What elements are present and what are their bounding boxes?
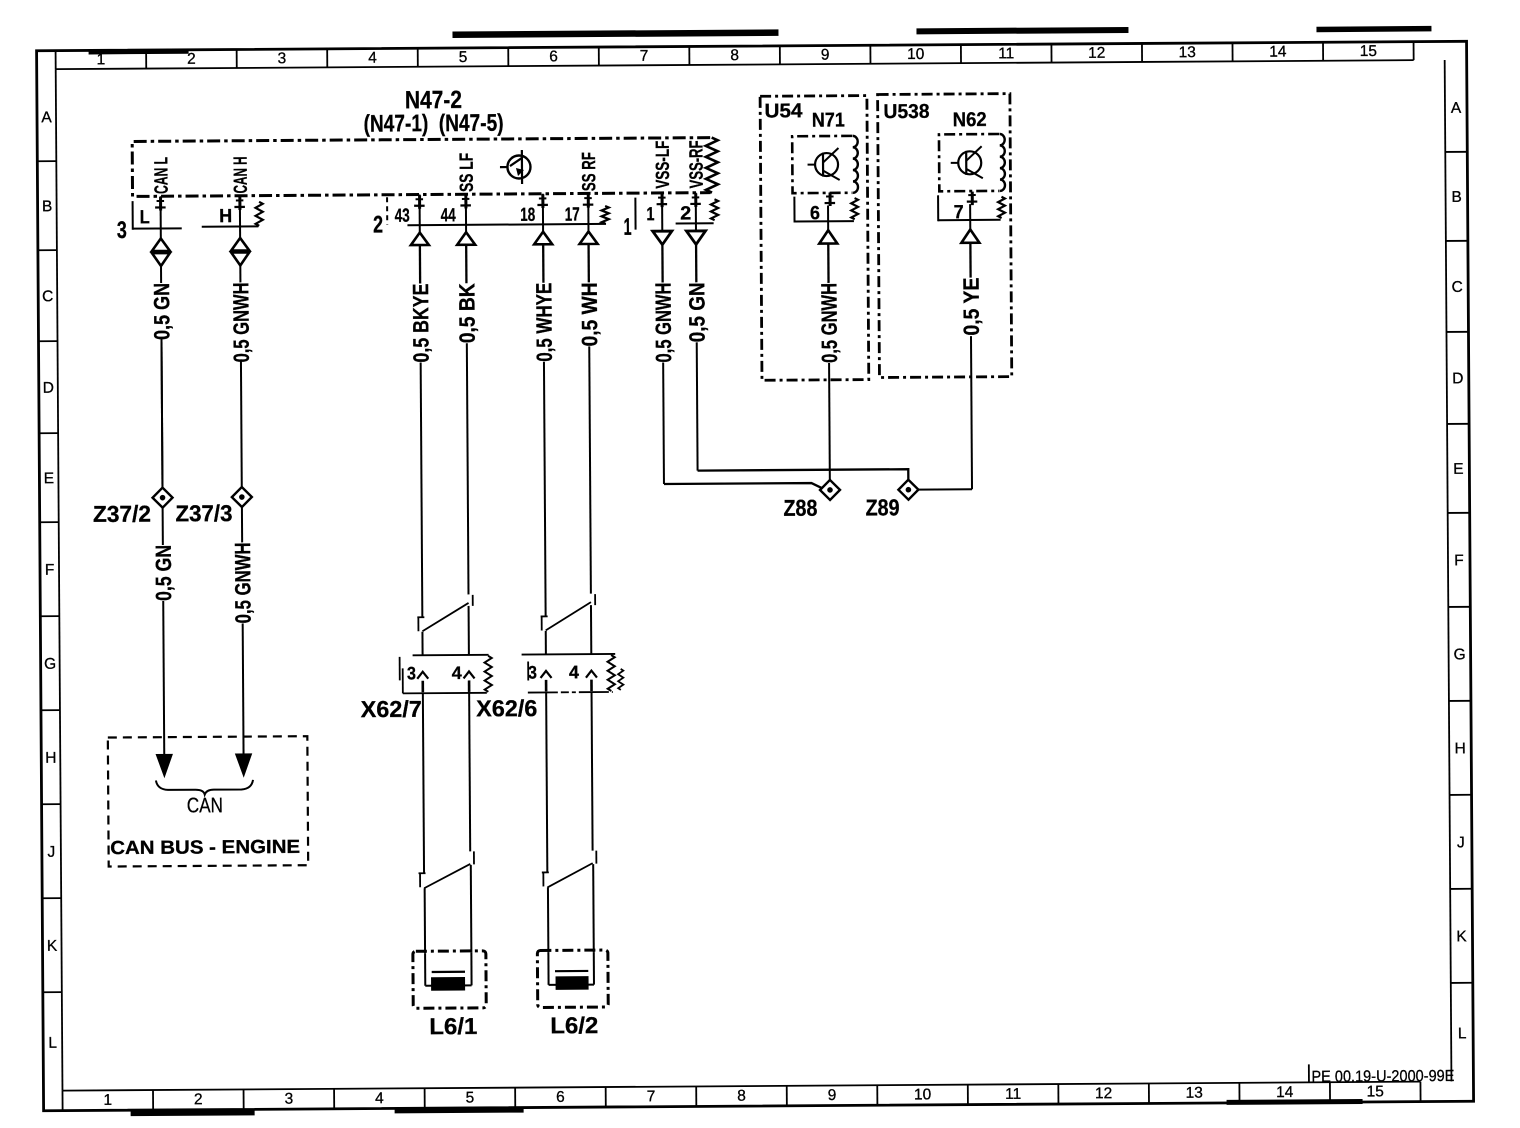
svg-text:2: 2 xyxy=(373,211,383,238)
svg-text:3: 3 xyxy=(407,663,416,683)
svg-text:PE 00.19-U-2000-99E: PE 00.19-U-2000-99E xyxy=(1311,1068,1454,1086)
svg-text:CAN BUS - ENGINE: CAN BUS - ENGINE xyxy=(110,837,300,859)
svg-text:CAN: CAN xyxy=(187,794,223,817)
svg-text:Z89: Z89 xyxy=(865,494,899,520)
svg-text:K: K xyxy=(47,938,58,955)
svg-text:N62: N62 xyxy=(953,109,987,131)
svg-text:A: A xyxy=(41,109,52,126)
svg-text:E: E xyxy=(1453,461,1463,478)
svg-text:5: 5 xyxy=(466,1089,475,1106)
svg-text:J: J xyxy=(1457,834,1465,851)
svg-text:(N47-1) (N47-5): (N47-1) (N47-5) xyxy=(363,110,503,138)
svg-text:9: 9 xyxy=(828,1087,837,1104)
svg-text:C: C xyxy=(1452,279,1463,296)
svg-text:A: A xyxy=(1451,100,1462,117)
svg-text:13: 13 xyxy=(1179,44,1196,61)
svg-text:14: 14 xyxy=(1276,1084,1294,1101)
svg-text:3: 3 xyxy=(285,1091,294,1108)
svg-text:Z37/2: Z37/2 xyxy=(93,501,151,527)
svg-text:B: B xyxy=(42,198,52,215)
svg-text:D: D xyxy=(43,380,54,397)
svg-text:11: 11 xyxy=(1005,1086,1021,1103)
svg-text:12: 12 xyxy=(1088,45,1105,62)
svg-text:L: L xyxy=(48,1035,57,1052)
svg-text:U538: U538 xyxy=(883,101,929,123)
svg-text:G: G xyxy=(44,656,56,673)
svg-text:1: 1 xyxy=(103,1092,112,1109)
svg-text:0,5 GNWH: 0,5 GNWH xyxy=(816,283,842,363)
svg-text:0,5 BKYE: 0,5 BKYE xyxy=(408,283,434,362)
svg-text:11: 11 xyxy=(998,45,1014,62)
svg-text:15: 15 xyxy=(1367,1083,1384,1100)
svg-text:L: L xyxy=(1458,1025,1467,1042)
svg-text:C: C xyxy=(42,288,53,305)
svg-text:L: L xyxy=(140,207,150,228)
svg-text:4: 4 xyxy=(452,663,462,683)
svg-text:L6/2: L6/2 xyxy=(550,1012,598,1038)
svg-text:12: 12 xyxy=(1095,1085,1112,1102)
svg-text:1: 1 xyxy=(646,204,654,225)
svg-text:3: 3 xyxy=(528,662,537,682)
svg-text:B: B xyxy=(1451,189,1461,206)
svg-text:0,5 BK: 0,5 BK xyxy=(454,283,479,343)
svg-text:0,5 GN: 0,5 GN xyxy=(684,282,709,342)
svg-text:F: F xyxy=(1454,552,1464,569)
svg-text:6: 6 xyxy=(549,48,558,65)
svg-text:X62/6: X62/6 xyxy=(476,695,537,721)
svg-text:0,5 GN: 0,5 GN xyxy=(149,283,174,340)
svg-text:2: 2 xyxy=(680,203,691,224)
svg-text:H: H xyxy=(45,750,56,767)
svg-text:H: H xyxy=(219,206,232,227)
svg-text:CAN L: CAN L xyxy=(151,157,172,194)
svg-text:3: 3 xyxy=(278,50,287,67)
svg-text:18: 18 xyxy=(520,205,535,226)
svg-text:8: 8 xyxy=(730,47,739,64)
svg-text:N71: N71 xyxy=(812,109,845,131)
svg-text:0,5 GN: 0,5 GN xyxy=(151,545,176,601)
svg-text:15: 15 xyxy=(1360,43,1377,60)
svg-text:4: 4 xyxy=(569,662,579,682)
svg-text:8: 8 xyxy=(737,1088,746,1105)
svg-text:CAN H: CAN H xyxy=(231,156,252,193)
svg-text:7: 7 xyxy=(647,1088,656,1105)
svg-text:L6/1: L6/1 xyxy=(429,1013,477,1039)
svg-text:0,5 WH: 0,5 WH xyxy=(577,282,602,346)
svg-text:6: 6 xyxy=(556,1089,565,1106)
svg-text:2: 2 xyxy=(194,1091,203,1108)
svg-text:J: J xyxy=(47,844,55,861)
svg-text:SS RF: SS RF xyxy=(579,152,600,191)
svg-text:7: 7 xyxy=(640,48,649,65)
svg-text:43: 43 xyxy=(395,206,410,227)
svg-text:VSS-RF: VSS-RF xyxy=(686,140,707,188)
svg-text:0,5 YE: 0,5 YE xyxy=(959,278,984,336)
svg-text:G: G xyxy=(1454,646,1466,663)
svg-text:1: 1 xyxy=(623,214,631,241)
svg-text:F: F xyxy=(45,562,55,579)
svg-text:10: 10 xyxy=(907,46,925,63)
svg-text:44: 44 xyxy=(441,205,456,226)
svg-text:0,5 GNWH: 0,5 GNWH xyxy=(651,282,677,362)
svg-text:10: 10 xyxy=(914,1086,932,1103)
svg-text:X62/7: X62/7 xyxy=(361,696,422,722)
svg-text:17: 17 xyxy=(565,204,580,225)
svg-text:Z88: Z88 xyxy=(783,495,817,521)
svg-text:13: 13 xyxy=(1186,1085,1203,1102)
svg-text:0,5 GNWH: 0,5 GNWH xyxy=(230,542,256,623)
svg-text:3: 3 xyxy=(117,217,127,244)
svg-text:5: 5 xyxy=(459,49,468,66)
svg-text:9: 9 xyxy=(821,47,830,64)
svg-text:K: K xyxy=(1456,928,1467,945)
svg-text:14: 14 xyxy=(1269,43,1287,60)
svg-text:4: 4 xyxy=(375,1090,384,1107)
svg-text:D: D xyxy=(1452,370,1463,387)
svg-text:Z37/3: Z37/3 xyxy=(175,500,232,526)
svg-text:SS LF: SS LF xyxy=(457,153,478,192)
svg-text:H: H xyxy=(1455,740,1466,757)
svg-text:VSS-LF: VSS-LF xyxy=(653,141,674,189)
svg-text:0,5 GNWH: 0,5 GNWH xyxy=(228,282,254,362)
svg-text:U54: U54 xyxy=(764,100,803,122)
svg-text:E: E xyxy=(44,470,54,487)
svg-text:4: 4 xyxy=(368,50,377,67)
svg-text:0,5 WHYE: 0,5 WHYE xyxy=(531,283,557,362)
